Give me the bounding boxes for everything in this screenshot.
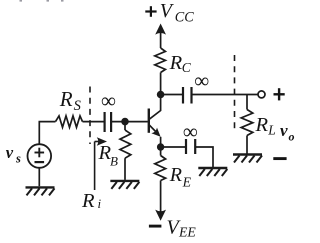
capacitor output coupling (infinity) [183, 87, 192, 104]
node output reference dashed line [234, 55, 236, 129]
svg-text:∞: ∞ [183, 120, 198, 144]
svg-text:v: v [280, 121, 288, 140]
resistor RB [120, 130, 131, 158]
node Ri reference dashed line [89, 87, 91, 145]
wire collector to output cap [161, 94, 183, 96]
node emitter junction dot [157, 143, 164, 150]
svg-text:R: R [255, 114, 269, 136]
wire RL tap [246, 95, 248, 110]
wire bypass cap to ground [195, 147, 213, 167]
wire source up [38, 122, 40, 145]
svg-text:L: L [267, 122, 276, 137]
wire emitter to RE [160, 147, 162, 156]
ground bypass [198, 168, 227, 176]
source vs plus [35, 148, 45, 158]
node output terminal circle [258, 91, 265, 98]
resistor RC [155, 48, 166, 73]
svg-text:V: V [160, 0, 175, 22]
resistor RL [241, 110, 253, 136]
label minus VEE [149, 216, 197, 239]
label output minus [273, 157, 286, 160]
ground RB [110, 181, 139, 189]
svg-text:∞: ∞ [101, 89, 116, 113]
decorative top specks [20, 0, 64, 2]
transistor Q1 collector lead [149, 95, 161, 120]
wire RB top lead [124, 122, 126, 130]
svg-text:B: B [110, 154, 118, 169]
svg-text:v: v [6, 143, 14, 162]
wire source down to ground [38, 168, 40, 186]
capacitor input coupling (infinity) [105, 112, 112, 132]
transistor Q1 base bar [148, 109, 150, 133]
source vs minus [35, 161, 45, 163]
label output plus [274, 88, 285, 100]
wire RE to VEE arrow [160, 181, 162, 212]
resistor RS [56, 116, 83, 127]
wire RB to ground [124, 158, 126, 180]
svg-text:C: C [182, 60, 192, 75]
wire output to terminal [192, 94, 259, 96]
wire to RS [39, 121, 56, 123]
wire collector vertical [160, 73, 162, 95]
transistor Q1 emitter lead with arrow [149, 125, 161, 147]
svg-text:i: i [98, 196, 102, 211]
node base junction dot [121, 118, 129, 126]
svg-text:∞: ∞ [194, 68, 209, 92]
wire emitter to bypass cap [161, 146, 186, 148]
resistor RE [155, 156, 166, 181]
label +VCC [145, 0, 194, 26]
svg-text:S: S [74, 98, 82, 114]
node VEE arrow [155, 210, 166, 221]
svg-text:EE: EE [178, 224, 196, 238]
wire base [111, 121, 148, 123]
svg-text:CC: CC [175, 10, 194, 26]
svg-text:s: s [15, 151, 21, 165]
svg-text:E: E [182, 175, 192, 190]
node Ri arrow [95, 137, 107, 190]
ground RL [233, 155, 262, 163]
wire RS to input cap [83, 121, 105, 123]
node collector junction dot [157, 91, 165, 99]
source vs circle [28, 144, 52, 168]
svg-text:R: R [81, 190, 95, 212]
capacitor bypass (infinity) [186, 139, 195, 154]
svg-text:R: R [169, 52, 183, 74]
svg-text:o: o [289, 130, 295, 144]
svg-text:R: R [169, 164, 182, 186]
ground source [26, 187, 55, 195]
wire RL to ground [246, 136, 248, 154]
node VCC arrow [155, 24, 166, 49]
svg-text:R: R [59, 87, 73, 111]
